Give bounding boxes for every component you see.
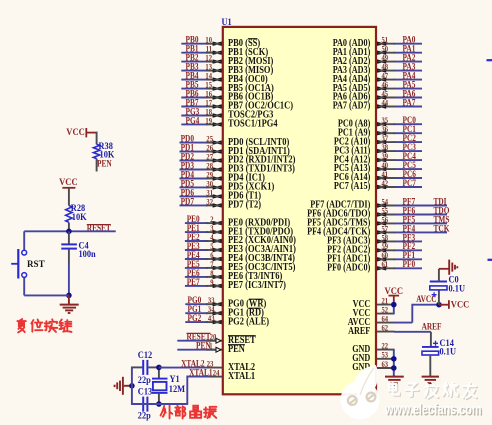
svg-text:TOSC1/1PG4: TOSC1/1PG4 bbox=[228, 119, 278, 130]
svg-text:10K: 10K bbox=[72, 213, 87, 223]
wire net PE6 (left, pin 8) bbox=[185, 276, 208, 278]
wire net PB5 (left, pin 15) bbox=[181, 88, 208, 90]
wire net PA5 (right, pin 46) bbox=[394, 88, 422, 90]
wire VCC to R28 bbox=[68, 188, 70, 206]
push-button RST bbox=[22, 250, 27, 255]
annotation 复位按键 (reset button, red) bbox=[17, 319, 25, 332]
svg-text:PEN: PEN bbox=[97, 160, 112, 170]
wire bottom rail bbox=[132, 403, 187, 405]
pin 62 (AREF) stub bbox=[377, 331, 395, 333]
svg-text:61: 61 bbox=[382, 259, 389, 269]
pin 37 stub bbox=[377, 141, 395, 143]
svg-text:AREF: AREF bbox=[422, 322, 442, 332]
pin 46 stub bbox=[377, 88, 395, 90]
svg-text:PE7 (IC3/INT7): PE7 (IC3/INT7) bbox=[228, 280, 286, 291]
capacitor C14 (0.1U on AREF) bbox=[430, 332, 432, 347]
svg-text:RST: RST bbox=[27, 260, 45, 270]
pin 25 stub bbox=[206, 142, 222, 144]
pin 32 stub bbox=[206, 204, 222, 206]
svg-text:PG4: PG4 bbox=[186, 116, 200, 126]
svg-text:C12: C12 bbox=[138, 351, 153, 361]
pin 4 stub bbox=[206, 240, 222, 242]
ground (C0, sideways) bbox=[439, 268, 449, 270]
pin 38 stub bbox=[377, 150, 395, 152]
svg-text:C13: C13 bbox=[138, 387, 153, 397]
pin 5 stub bbox=[206, 249, 222, 251]
wire net PC2 (right, pin 37) bbox=[394, 141, 422, 143]
wire net PB7 (left, pin 17) bbox=[181, 106, 208, 108]
node crystal ground junction bbox=[129, 383, 135, 389]
pin 18 stub bbox=[206, 115, 222, 117]
crystal Y1 bbox=[158, 367, 160, 378]
pin 16 stub bbox=[206, 97, 222, 99]
node bottom rail junction bbox=[156, 401, 162, 407]
svg-text:PE7: PE7 bbox=[187, 278, 200, 288]
node XTAL2 junction bbox=[156, 365, 162, 371]
wire net PA6 (right, pin 45) bbox=[394, 97, 422, 99]
pin 8 stub bbox=[206, 276, 222, 278]
pin 57 stub bbox=[377, 231, 395, 233]
wire mark (right edge, middle) bbox=[488, 259, 492, 261]
wire net PD7 (left, pin 32) bbox=[180, 204, 209, 206]
svg-text:PA7 (AD7): PA7 (AD7) bbox=[333, 101, 371, 112]
wire net PF7 (right, pin 54) bbox=[394, 205, 447, 207]
wire net PD0 (left, pin 25) bbox=[180, 142, 209, 144]
wire net PE2 (left, pin 4) bbox=[185, 240, 208, 242]
wire button bottom bbox=[23, 277, 25, 295]
svg-text:XTAL1: XTAL1 bbox=[228, 371, 255, 382]
pin 28 stub bbox=[206, 169, 222, 171]
svg-text:PEN: PEN bbox=[228, 344, 245, 355]
svg-text:PC7 (A15): PC7 (A15) bbox=[334, 181, 370, 192]
wire net PA1 (right, pin 50) bbox=[394, 52, 422, 54]
svg-text:PEN: PEN bbox=[196, 342, 211, 352]
capacitor C0 (0.1U decoupling) bbox=[438, 290, 440, 305]
wire net PB3 (left, pin 13) bbox=[181, 70, 208, 72]
wire net PEN (left, pin 1) bbox=[177, 349, 215, 351]
pin 29 stub bbox=[206, 178, 222, 180]
svg-text:Y1: Y1 bbox=[170, 375, 180, 385]
svg-text:9: 9 bbox=[210, 277, 214, 287]
wire XTAL1 riser bbox=[186, 376, 188, 405]
pin 34 stub bbox=[206, 312, 222, 314]
pin 52 (VCC) stub bbox=[377, 313, 395, 315]
svg-text:PD7 (T2): PD7 (T2) bbox=[228, 200, 261, 211]
pin 10 stub bbox=[206, 43, 222, 45]
svg-text:TCK: TCK bbox=[434, 224, 450, 234]
watermark logo circle bbox=[341, 381, 380, 420]
wire net PD2 (left, pin 27) bbox=[180, 160, 209, 162]
svg-text:PG2 (ALE): PG2 (ALE) bbox=[228, 316, 269, 327]
pin 6 stub bbox=[206, 258, 222, 260]
pin 41 stub bbox=[377, 177, 395, 179]
pin 48 stub bbox=[377, 70, 395, 72]
svg-text:www.elecfans.com: www.elecfans.com bbox=[384, 402, 481, 418]
wire net PE4 (left, pin 6) bbox=[185, 258, 208, 260]
wire net PE7 (left, pin 9) bbox=[185, 285, 208, 287]
node GND junction (pin 53) bbox=[391, 356, 397, 362]
ground (crystal, sideways) bbox=[124, 385, 132, 387]
ground (reset circuit) bbox=[68, 295, 70, 304]
wire net PG4 (left, pin 19) bbox=[181, 123, 208, 125]
pin 51 stub bbox=[377, 43, 395, 45]
polarity + (C0) bbox=[432, 292, 437, 297]
pin 13 stub bbox=[206, 70, 222, 72]
pin 14 stub bbox=[206, 79, 222, 81]
capacitor C13 bbox=[132, 403, 142, 405]
node GND junction (pin 63) bbox=[391, 365, 397, 371]
resistor R28 bbox=[66, 206, 72, 223]
wire net PG0 (left, pin 33) bbox=[185, 303, 208, 305]
wire net PC6 (right, pin 41) bbox=[394, 177, 422, 179]
svg-text:22p: 22p bbox=[138, 411, 151, 421]
wire net PD4 (left, pin 29) bbox=[180, 178, 209, 180]
pin 59 stub bbox=[377, 249, 395, 251]
pin 49 stub bbox=[377, 61, 395, 63]
annotation 外部晶振 (external crystal, red) bbox=[161, 406, 173, 419]
pin 45 stub bbox=[377, 97, 395, 99]
svg-text:AREF: AREF bbox=[348, 326, 370, 337]
pin 36 stub bbox=[377, 132, 395, 134]
svg-text:VCC: VCC bbox=[66, 128, 85, 138]
wire AVCC (pin 64) bbox=[394, 322, 412, 324]
svg-text:PC7: PC7 bbox=[403, 179, 417, 189]
ground (GND pins) bbox=[393, 375, 395, 377]
wire net PC3 (right, pin 38) bbox=[394, 150, 422, 152]
chip U1 body: ATmega128 MCU rectangle bbox=[223, 27, 376, 394]
svg-text:PD7: PD7 bbox=[181, 197, 195, 207]
pin 27 stub bbox=[206, 160, 222, 162]
watermark link icon bbox=[348, 393, 376, 405]
pin 60 stub bbox=[377, 258, 395, 260]
pin 63 (GND) stub bbox=[377, 367, 395, 369]
wire net PC7 (right, pin 42) bbox=[394, 186, 422, 188]
wire net PE3 (left, pin 5) bbox=[185, 249, 208, 251]
power VCC (AVCC node) bbox=[439, 304, 449, 306]
wire net PA4 (right, pin 47) bbox=[394, 79, 422, 81]
wire net PF6 (right, pin 55) bbox=[394, 214, 447, 216]
wire net PF0 (right, pin 61) bbox=[394, 267, 422, 269]
wire net PD3 (left, pin 28) bbox=[180, 169, 209, 171]
wire net PB0 (left, pin 10) bbox=[181, 43, 208, 45]
wire net PC5 (right, pin 40) bbox=[394, 168, 422, 170]
svg-text:VCC: VCC bbox=[451, 301, 470, 311]
svg-text:VCC: VCC bbox=[59, 178, 78, 188]
wire net PF4 (right, pin 57) bbox=[394, 231, 447, 233]
wire net PC1 (right, pin 36) bbox=[394, 132, 422, 134]
svg-text:PG2: PG2 bbox=[188, 314, 202, 324]
pin 31 stub bbox=[206, 195, 222, 197]
pin 23 stub (XTAL2) bbox=[204, 367, 222, 369]
pin 21 (VCC) stub bbox=[377, 304, 395, 306]
wire bottom horizontal bbox=[24, 294, 69, 296]
pin 61 stub bbox=[377, 267, 395, 269]
wire XTAL1 bbox=[187, 376, 210, 378]
pin 56 stub bbox=[377, 222, 395, 224]
wire left rail bbox=[131, 367, 133, 405]
svg-text:19: 19 bbox=[205, 115, 212, 125]
wire net PB2 (left, pin 12) bbox=[181, 61, 208, 63]
ground (C14) bbox=[422, 376, 439, 378]
wire net PD5 (left, pin 30) bbox=[180, 186, 209, 188]
pin 15 stub bbox=[206, 88, 222, 90]
wire net PB4 (left, pin 14) bbox=[181, 79, 208, 81]
node VCC junction (pin 21) bbox=[391, 302, 397, 308]
capacitor C12 bbox=[132, 366, 142, 368]
pin 40 stub bbox=[377, 168, 395, 170]
wire net PD1 (left, pin 26) bbox=[180, 151, 209, 153]
wire net PE0 (left, pin 2) bbox=[185, 222, 208, 224]
wire net PF1 (right, pin 60) bbox=[394, 258, 422, 260]
pin 44 stub bbox=[377, 106, 395, 108]
wire net PF5 (right, pin 56) bbox=[394, 222, 447, 224]
pin 47 stub bbox=[377, 79, 395, 81]
pin 1 stub bbox=[206, 349, 222, 351]
svg-text:24: 24 bbox=[213, 368, 220, 378]
wire net PF3 (right, pin 58) bbox=[394, 240, 422, 242]
svg-text:22p: 22p bbox=[138, 376, 151, 386]
pin 20 stub bbox=[206, 340, 222, 342]
wire C4 to ground node bbox=[68, 264, 70, 295]
wire RESET node horizontal bbox=[24, 230, 116, 232]
node ground junction bbox=[66, 293, 72, 299]
pin 12 stub bbox=[206, 61, 222, 63]
pin 33 stub bbox=[206, 303, 222, 305]
resistor R38 bbox=[93, 144, 99, 158]
pin 39 stub bbox=[377, 159, 395, 161]
watermark leaf bbox=[355, 365, 378, 398]
wire net PG1 (left, pin 34) bbox=[185, 312, 208, 314]
wire net PB6 (left, pin 16) bbox=[181, 97, 208, 99]
watermark text 电子发烧友 bbox=[390, 383, 400, 395]
wire net PA2 (right, pin 49) bbox=[394, 61, 422, 63]
pin 2 stub bbox=[206, 222, 222, 224]
pin 19 stub bbox=[206, 123, 222, 125]
svg-text:PA7: PA7 bbox=[403, 98, 416, 108]
wire net PD6 (left, pin 31) bbox=[180, 195, 209, 197]
pin 53 (GND) stub bbox=[377, 358, 395, 360]
pin 30 stub bbox=[206, 186, 222, 188]
svg-text:RESET: RESET bbox=[87, 224, 112, 234]
pin 35 stub bbox=[377, 123, 395, 125]
pin 43 stub bbox=[206, 321, 222, 323]
wire mark (right edge, top) bbox=[487, 59, 492, 61]
svg-text:42: 42 bbox=[382, 178, 389, 188]
wire net PA7 (right, pin 44) bbox=[394, 106, 422, 108]
wire net PB1 (left, pin 11) bbox=[181, 52, 208, 54]
node AVCC junction bbox=[436, 302, 442, 308]
svg-text:PF0 (ADC0): PF0 (ADC0) bbox=[327, 263, 370, 274]
wire net PA3 (right, pin 48) bbox=[394, 70, 422, 72]
svg-text:U1: U1 bbox=[222, 18, 232, 28]
pin 7 stub bbox=[206, 267, 222, 269]
svg-text:0.1U: 0.1U bbox=[440, 348, 457, 358]
wire net PC0 (right, pin 35) bbox=[394, 123, 422, 125]
wire net PA0 (right, pin 51) bbox=[394, 43, 422, 45]
wire R38 to PEN bbox=[96, 159, 98, 172]
svg-text:44: 44 bbox=[382, 97, 389, 107]
pin 54 stub bbox=[377, 205, 395, 207]
svg-text:43: 43 bbox=[208, 313, 215, 323]
wire VCC pins join bbox=[393, 305, 395, 314]
wire net PE1 (left, pin 3) bbox=[185, 231, 208, 233]
wire net PC4 (right, pin 39) bbox=[394, 159, 422, 161]
wire net RESET (left, pin 20) bbox=[177, 340, 215, 342]
capacitor C4 bbox=[68, 231, 70, 243]
pin 42 stub bbox=[377, 186, 395, 188]
svg-text:62: 62 bbox=[382, 323, 389, 333]
wire net PG2 (left, pin 43) bbox=[185, 321, 208, 323]
pin 26 stub bbox=[206, 151, 222, 153]
svg-text:100n: 100n bbox=[79, 250, 97, 260]
svg-text:PF0: PF0 bbox=[403, 260, 416, 270]
wire net PE5 (left, pin 7) bbox=[185, 267, 208, 269]
wire net PG3 (left, pin 18) bbox=[181, 115, 208, 117]
pin 50 stub bbox=[377, 52, 395, 54]
pin 24 stub (XTAL1) bbox=[209, 376, 222, 378]
wire XTAL2 bbox=[159, 367, 205, 369]
wire GND pins join bbox=[393, 350, 395, 376]
wire button top bbox=[23, 231, 25, 250]
pin 55 stub bbox=[377, 214, 395, 216]
pin 58 stub bbox=[377, 240, 395, 242]
wire net PF2 (right, pin 59) bbox=[394, 249, 422, 251]
node RESET junction bbox=[66, 229, 72, 235]
wire VCC to R38 bbox=[96, 132, 98, 145]
pin 3 stub bbox=[206, 231, 222, 233]
svg-text:63: 63 bbox=[382, 359, 389, 369]
pin 9 stub bbox=[206, 285, 222, 287]
polarity + (C14) bbox=[433, 341, 438, 346]
svg-text:12M: 12M bbox=[169, 385, 185, 395]
svg-text:0.1U: 0.1U bbox=[449, 284, 466, 294]
svg-text:32: 32 bbox=[206, 196, 213, 206]
wire R28 to RESET node bbox=[68, 223, 70, 232]
pin 22 (GND) stub bbox=[377, 349, 395, 351]
pin 64 (AVCC) stub bbox=[377, 322, 395, 324]
wire AREF (pin 62) bbox=[394, 331, 431, 333]
pin 17 stub bbox=[206, 106, 222, 108]
pin 11 stub bbox=[206, 52, 222, 54]
